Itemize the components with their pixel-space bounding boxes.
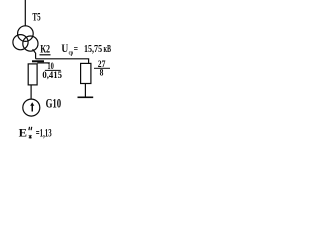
thick generator busbar stub — [32, 60, 44, 62]
svg-text:=: = — [74, 44, 78, 55]
reactance box X=8 (system branch) — [81, 63, 91, 83]
underline of fault label K2 — [40, 54, 51, 56]
svg-text:G10: G10 — [46, 97, 62, 111]
fraction bar 10/0,415 — [45, 69, 61, 71]
svg-text:=1,13: =1,13 — [36, 127, 52, 139]
wire from system to transformer T5 — [24, 0, 26, 26]
fraction bar 27/8 — [94, 67, 110, 69]
generator G10 circle — [23, 99, 40, 116]
svg-text:8: 8 — [100, 68, 104, 78]
svg-text:15,75: 15,75 — [84, 44, 102, 55]
transformer T5 bottom-right winding circle — [23, 36, 38, 51]
wire box to generator — [30, 85, 32, 99]
svg-text:К2: К2 — [40, 44, 50, 56]
svg-text:кВ: кВ — [104, 44, 112, 55]
svg-text:U: U — [61, 43, 68, 55]
transformer T5 bottom-left winding circle — [13, 35, 28, 50]
EMF arrow inside G10 — [30, 102, 34, 111]
svg-text:Е: Е — [19, 125, 27, 139]
terminal bar (system) — [78, 96, 94, 98]
thin bus stub — [37, 62, 50, 64]
svg-text:Т5: Т5 — [32, 10, 40, 24]
wire box to terminal — [84, 84, 86, 97]
reactance box X=0.415 (branch G10) — [28, 64, 37, 85]
transformer T5 top winding circle — [18, 26, 34, 42]
busbar U=15.75kV — [36, 59, 89, 64]
wire transformer to busbar (diagonal) — [33, 49, 36, 59]
asterisk subscript of E — [29, 135, 32, 139]
double prime of E'' — [29, 127, 32, 130]
svg-text:0,415: 0,415 — [42, 70, 62, 80]
